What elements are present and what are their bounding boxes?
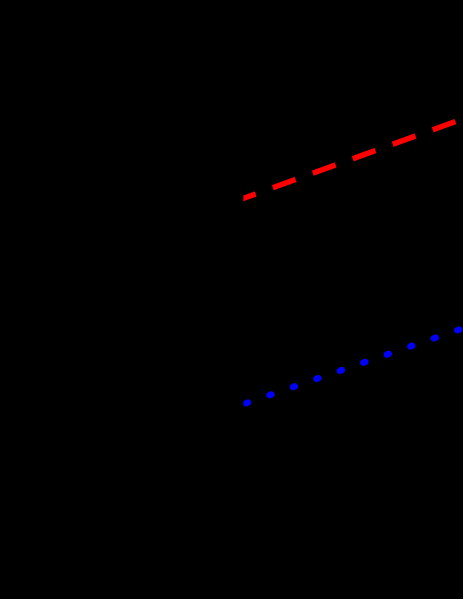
red dashed line [233, 116, 463, 202]
blue dotted line [246, 326, 463, 403]
